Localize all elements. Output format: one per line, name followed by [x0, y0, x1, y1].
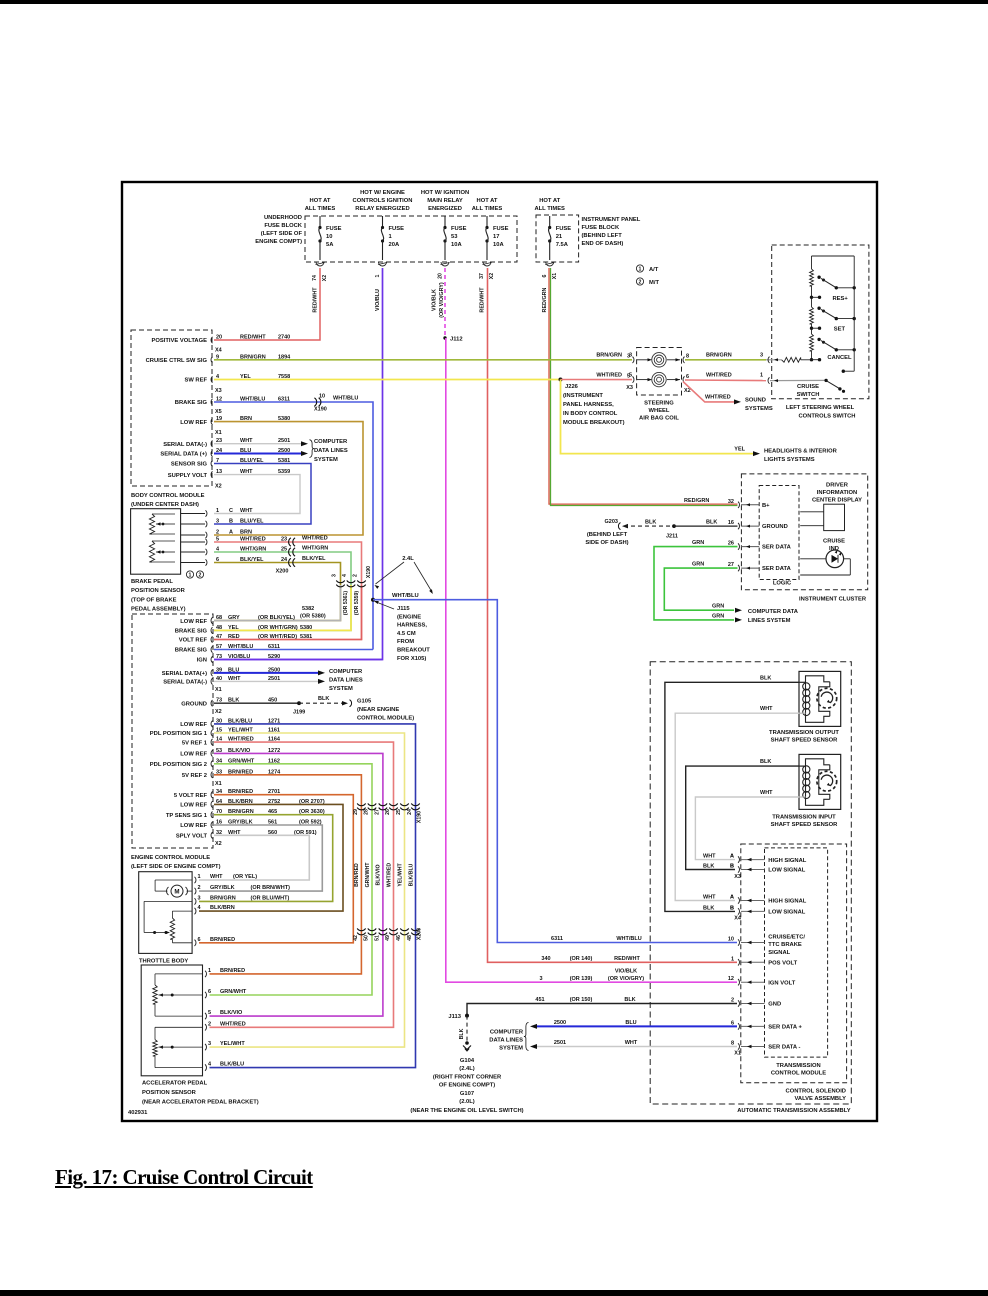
svg-text:1: 1	[389, 234, 393, 240]
svg-text:(OR BLK/YEL): (OR BLK/YEL)	[258, 615, 295, 621]
splice J226	[559, 378, 563, 382]
svg-text:WHT: WHT	[760, 706, 773, 712]
svg-text:2: 2	[731, 998, 734, 1004]
wire VIO/BLU from fuse 1 down to ECM IGN pin 73	[214, 268, 383, 660]
ECM pin 73 GROUND	[181, 698, 277, 708]
wire BLK input sensor	[686, 759, 799, 869]
computer data lines arrows (ECM)	[318, 670, 325, 684]
svg-text:68: 68	[216, 615, 222, 621]
svg-text:OF ENGINE COMPT): OF ENGINE COMPT)	[439, 1083, 495, 1089]
svg-text:ALL TIMES: ALL TIMES	[305, 206, 336, 212]
svg-text:X3: X3	[215, 388, 222, 394]
svg-text:4: 4	[198, 905, 202, 911]
svg-text:IGN: IGN	[197, 658, 207, 664]
fuse 21 pin labels 6 X1	[542, 273, 558, 279]
ECM pin 53 LOW REF	[180, 748, 280, 758]
svg-text:POSITIVE VOLTAGE: POSITIVE VOLTAGE	[151, 338, 207, 344]
svg-text:(INSTRUMENT: (INSTRUMENT	[563, 393, 603, 399]
svg-text:LOW REF: LOW REF	[180, 752, 207, 758]
svg-text:WHT/BLU: WHT/BLU	[616, 936, 641, 942]
svg-text:(OR BLU/WHT): (OR BLU/WHT)	[251, 895, 290, 901]
svg-text:(OR WHT/GRN): (OR WHT/GRN)	[258, 625, 298, 631]
svg-text:SYSTEMS: SYSTEMS	[745, 406, 773, 412]
ECM pin 68 LOW REF	[180, 615, 295, 625]
svg-text:BRAKE SIG: BRAKE SIG	[175, 400, 208, 406]
svg-text:(OR 140): (OR 140)	[570, 956, 593, 962]
svg-text:5381: 5381	[300, 634, 312, 640]
BCM label	[131, 493, 205, 508]
svg-text:FUSE: FUSE	[326, 226, 342, 232]
svg-text:6311: 6311	[551, 936, 563, 942]
wire WHT 5359 BCM supply volt down to row C	[214, 475, 300, 514]
svg-text:2: 2	[353, 574, 359, 577]
ECM pin 32 SPLY VOLT	[176, 830, 277, 840]
ECM pin 30 LOW REF	[180, 718, 280, 728]
svg-text:J113: J113	[448, 1014, 461, 1020]
svg-text:24: 24	[407, 809, 413, 815]
svg-text:ENERGIZED: ENERGIZED	[428, 206, 462, 212]
svg-text:46: 46	[396, 935, 402, 941]
svg-text:2.4L: 2.4L	[402, 556, 414, 562]
svg-text:HEADLIGHTS & INTERIOR: HEADLIGHTS & INTERIOR	[764, 449, 838, 455]
svg-text:DATA LINES: DATA LINES	[489, 1038, 523, 1044]
svg-text:A: A	[730, 854, 734, 860]
svg-text:BLK/BLU: BLK/BLU	[408, 863, 414, 886]
svg-text:FUSE: FUSE	[389, 226, 405, 232]
brake sensor pin 2 BRN	[216, 530, 252, 536]
ECM pin 14 5V REF 1	[182, 737, 281, 747]
svg-text:SIDE OF DASH): SIDE OF DASH)	[585, 540, 628, 546]
svg-text:BLK/BLU: BLK/BLU	[220, 1062, 244, 1068]
svg-text:X2: X2	[322, 275, 328, 281]
instrument panel fuse block label	[582, 217, 641, 247]
svg-text:SHAFT SPEED SENSOR: SHAFT SPEED SENSOR	[771, 822, 838, 828]
svg-text:SPLY VOLT: SPLY VOLT	[176, 834, 208, 840]
svg-text:4.5 CM: 4.5 CM	[397, 631, 416, 637]
wire BRN/RED 2701 ECM to throttle body	[199, 795, 353, 943]
svg-text:WHT: WHT	[210, 874, 223, 880]
sound systems arrow and text	[705, 395, 773, 413]
svg-text:28: 28	[364, 809, 370, 815]
svg-text:HOT AT: HOT AT	[477, 198, 498, 204]
svg-text:27: 27	[728, 562, 734, 568]
svg-text:74: 74	[312, 275, 318, 281]
svg-text:B: B	[730, 905, 734, 911]
svg-text:(OR VIO/GRY): (OR VIO/GRY)	[439, 282, 445, 318]
svg-text:X2: X2	[489, 273, 495, 279]
wire labels 3 (OR 139) VIO/BLK (OR VIO/GRY)	[539, 968, 644, 982]
svg-text:CONTROLS SWITCH: CONTROLS SWITCH	[799, 414, 856, 420]
BCM pin 7 SENSOR SIG	[171, 458, 290, 468]
inline connector X190 pin 10	[314, 394, 358, 413]
svg-text:INFORMATION: INFORMATION	[817, 490, 857, 496]
inline connector column X200 pins 42 50 51 49 46 48	[353, 928, 423, 941]
inline connector column X190 pins 29 28 27 26 25 24	[353, 803, 423, 823]
ECM pin 57 BRAKE SIG	[175, 644, 280, 654]
svg-text:UNDERHOOD: UNDERHOOD	[264, 215, 302, 221]
BCM pin 13 SUPPLY VOLT	[168, 469, 290, 479]
svg-text:3: 3	[539, 976, 542, 982]
accelerator pedal pin 3 YEL/WHT	[205, 1041, 245, 1050]
wire WHT 560 ECM to throttle body	[199, 835, 309, 880]
svg-text:A/T: A/T	[649, 267, 659, 273]
wire BLK/VIO 1272 ECM to accelerator pedal	[210, 753, 383, 1016]
feed label HOT W/ ENGINE CONTROLS IGNITION RELAY ENERGIZED	[353, 190, 413, 212]
computer data lines system text (bottom)	[489, 1030, 524, 1052]
svg-text:CONTROL MODULE: CONTROL MODULE	[771, 1071, 826, 1077]
svg-text:YEL/WHT: YEL/WHT	[397, 862, 403, 886]
svg-text:FROM: FROM	[397, 639, 414, 645]
throttle potentiometer	[144, 901, 192, 942]
svg-text:A: A	[730, 895, 734, 901]
accelerator pedal pin 2 WHT/RED	[205, 1021, 246, 1030]
svg-text:LOW REF: LOW REF	[180, 619, 207, 625]
svg-text:1: 1	[375, 274, 381, 277]
svg-text:IN BODY CONTROL: IN BODY CONTROL	[563, 411, 618, 417]
ECM pin 40 SERIAL DATA(-)	[163, 676, 280, 686]
svg-text:3: 3	[216, 519, 219, 525]
svg-text:J112: J112	[450, 337, 463, 343]
BCM pin 23 SERIAL DATA(-)	[163, 438, 290, 448]
underhood fuse block (dashed box)	[305, 216, 517, 262]
svg-text:LOW SIGNAL: LOW SIGNAL	[768, 868, 805, 874]
svg-text:CRUISE CTRL SW SIG: CRUISE CTRL SW SIG	[146, 358, 208, 364]
svg-text:COMPUTER: COMPUTER	[490, 1030, 524, 1036]
BCM pin 20 POSITIVE VOLTAGE	[151, 335, 290, 345]
throttle body (box)	[139, 872, 192, 954]
wire WHT/BLU 6311 ECM stub (connects to vertical)	[214, 649, 373, 651]
legend A/T	[636, 265, 658, 273]
svg-text:X2: X2	[215, 841, 222, 847]
svg-text:BRN/RED: BRN/RED	[210, 937, 235, 943]
svg-text:LOW REF: LOW REF	[180, 803, 207, 809]
wire BLU 2500 to TCM ser data+	[536, 1025, 737, 1027]
TCM pin 6 SER DATA +	[731, 1020, 803, 1030]
svg-text:37: 37	[479, 273, 485, 279]
svg-text:LOGIC: LOGIC	[773, 581, 792, 587]
svg-text:27: 27	[374, 809, 380, 815]
instrument cluster label	[799, 597, 867, 603]
cluster pin 27 SER DATA	[728, 562, 792, 572]
svg-text:2: 2	[639, 280, 642, 286]
accelerator pedal label	[142, 1081, 259, 1106]
throttle body pin 4 BLK/BRN	[195, 905, 235, 914]
svg-text:LEFT STEERING WHEEL: LEFT STEERING WHEEL	[786, 405, 855, 411]
feed label HOT AT ALL TIMES (fuse 10)	[305, 198, 336, 212]
cluster pin 32 B+	[728, 499, 770, 509]
svg-text:AIR BAG COIL: AIR BAG COIL	[639, 416, 679, 422]
svg-text:2: 2	[198, 885, 201, 891]
fuse 1 pin label 1	[375, 274, 381, 277]
brake sensor pin 4 WHT/GRN	[216, 547, 287, 553]
fuse 53 10A	[441, 216, 467, 266]
svg-text:48: 48	[407, 935, 413, 941]
accelerator pedal pin 6 GRN/WHT	[205, 989, 247, 998]
wire BRN 5380 BCM low ref down to brake pedal sensor row A	[214, 422, 363, 535]
ECM connector labels X1 X2 X1 X2	[215, 687, 222, 847]
accelerator pedal position sensor (box)	[141, 965, 202, 1076]
svg-text:SERIAL DATA(-): SERIAL DATA(-)	[163, 442, 207, 448]
svg-text:1: 1	[639, 267, 642, 273]
computer data lines system text (ECM)	[329, 669, 363, 692]
controls switch label	[786, 405, 856, 420]
wire RED/GRN from fuse 21 down to instrument cluster B+	[549, 268, 738, 506]
bottom black bar	[0, 1290, 988, 1296]
svg-text:6: 6	[686, 374, 689, 380]
svg-text:402931: 402931	[128, 1110, 148, 1116]
svg-text:WHEEL: WHEEL	[649, 408, 670, 414]
computer data lines arrows (BCM)	[301, 440, 314, 458]
svg-text:1: 1	[731, 956, 734, 962]
wire labels WHT/RED row	[596, 373, 763, 379]
svg-text:WHT/RED: WHT/RED	[302, 536, 328, 542]
wire BRN/GRN coil to cruise switch	[685, 359, 766, 361]
wire label RED/GRN	[542, 287, 548, 312]
svg-text:(NEAR THE ENGINE OIL LEVEL SWI: (NEAR THE ENGINE OIL LEVEL SWITCH)	[410, 1108, 523, 1114]
svg-text:POSITION SENSOR: POSITION SENSOR	[131, 588, 186, 594]
throttle motor M	[155, 880, 192, 897]
svg-text:1: 1	[216, 508, 219, 514]
overlay lower wire colors GRY YEL RED after X190	[214, 585, 362, 640]
BCM pin 24 SERIAL DATA (+)	[160, 448, 290, 458]
svg-text:RED/WHT: RED/WHT	[614, 956, 640, 962]
wire labels 6311 WHT/BLU at TCM	[551, 936, 642, 942]
svg-text:BLK: BLK	[459, 1028, 465, 1039]
throttle body pin 6 BRN/RED	[195, 937, 236, 946]
svg-text:(LEFT SIDE OF ENGINE COMPT): (LEFT SIDE OF ENGINE COMPT)	[131, 864, 221, 870]
underhood fuse block label	[255, 215, 303, 245]
svg-text:GRN: GRN	[712, 604, 724, 610]
svg-text:RED/GRN: RED/GRN	[684, 498, 709, 504]
svg-text:GROUND: GROUND	[762, 524, 788, 530]
svg-text:10: 10	[326, 234, 332, 240]
air bag coil spiral 1	[637, 353, 680, 367]
svg-text:ENGINE COMPT): ENGINE COMPT)	[255, 239, 302, 245]
svg-text:BRAKE SIG: BRAKE SIG	[175, 629, 208, 635]
svg-text:B: B	[730, 864, 734, 870]
headlights arrow and text	[734, 447, 837, 464]
svg-text:GRY/BLK: GRY/BLK	[210, 885, 235, 891]
transmission input shaft speed sensor	[799, 754, 841, 809]
svg-text:BRN/RED: BRN/RED	[220, 968, 245, 974]
svg-text:SW REF: SW REF	[184, 378, 207, 384]
brake sensor pin 3 BLU/YEL	[216, 519, 264, 525]
fuse 17 10A	[483, 216, 509, 266]
fuse 10 5A	[316, 216, 342, 266]
ECM pin 15 PDL POSITION SIG 1	[150, 728, 280, 738]
TCM pin 1 POS VOLT	[731, 956, 798, 966]
svg-text:X1: X1	[215, 430, 222, 436]
svg-text:LOW REF: LOW REF	[180, 722, 207, 728]
svg-text:INSTRUMENT PANEL: INSTRUMENT PANEL	[582, 217, 641, 223]
svg-text:BODY CONTROL MODULE: BODY CONTROL MODULE	[131, 493, 205, 499]
svg-text:B: B	[229, 519, 233, 525]
svg-text:SWITCH: SWITCH	[797, 392, 820, 398]
wire WHT/GRN 25 to X190 vertical	[214, 552, 351, 630]
wire VIO/BLK solid from J112 down to TCM IGN VOLT	[446, 338, 737, 982]
brake sensor pin 1 WHT	[216, 508, 253, 514]
feed label HOT W/ IGNITION MAIN RELAY ENERGIZED	[421, 190, 469, 212]
J115 note with leader	[373, 599, 430, 661]
svg-text:(NEAR ENGINE: (NEAR ENGINE	[357, 707, 399, 713]
svg-text:BRN/GRN: BRN/GRN	[596, 353, 622, 359]
svg-text:HOT W/ ENGINE: HOT W/ ENGINE	[360, 190, 405, 196]
svg-text:X200: X200	[276, 569, 289, 575]
svg-text:(OR 5359): (OR 5359)	[354, 591, 360, 615]
ground G105	[342, 699, 414, 722]
TCM pin B LOW SIGNAL	[730, 864, 806, 874]
svg-text:340: 340	[541, 956, 550, 962]
svg-text:END OF DASH): END OF DASH)	[582, 241, 624, 247]
automatic transmission assembly label	[737, 1108, 851, 1114]
brake pedal sensor potentiometer 2	[149, 541, 175, 562]
svg-text:SYSTEM: SYSTEM	[314, 457, 338, 463]
svg-text:(OR 139): (OR 139)	[570, 976, 593, 982]
wire BRN/GRN 1894 BCM to air bag coil	[214, 359, 632, 361]
svg-text:IGN VOLT: IGN VOLT	[768, 980, 795, 986]
ECM pin 48 BRAKE SIG	[175, 625, 312, 635]
svg-text:(RIGHT FRONT CORNER: (RIGHT FRONT CORNER	[433, 1075, 502, 1081]
wire YEL 7558 BCM to J226	[214, 379, 561, 381]
wire WHT 2501 ECM serial data-	[214, 680, 318, 682]
svg-text:RELAY ENERGIZED: RELAY ENERGIZED	[355, 206, 409, 212]
svg-text:50: 50	[364, 935, 370, 941]
svg-text:GRN: GRN	[712, 613, 724, 619]
svg-text:G203: G203	[605, 519, 618, 525]
svg-text:SER DATA -: SER DATA -	[768, 1045, 800, 1051]
svg-text:BLK: BLK	[760, 759, 771, 765]
svg-text:M/T: M/T	[649, 280, 659, 286]
ECM pin 34 PDL POSITION SIG 2	[150, 758, 280, 768]
svg-text:BLK: BLK	[703, 905, 714, 911]
svg-text:INSTRUMENT CLUSTER: INSTRUMENT CLUSTER	[799, 597, 867, 603]
transmission control module (dashed box)	[765, 848, 828, 1057]
svg-text:21: 21	[556, 234, 563, 240]
svg-text:BRN/GRN: BRN/GRN	[210, 895, 236, 901]
inline connector X200 (brake sensor wires)	[276, 538, 296, 575]
svg-text:FOR X105): FOR X105)	[397, 656, 426, 662]
splice dot on WHT/BLU at y600 and branch to TCM	[371, 598, 737, 943]
svg-text:(2.4L): (2.4L)	[459, 1066, 475, 1072]
wire GRN ser data 26	[654, 540, 738, 620]
svg-text:BLK: BLK	[318, 696, 329, 702]
svg-text:COMPUTER: COMPUTER	[329, 669, 363, 675]
wire WHT output sensor	[675, 706, 799, 900]
ladder bottom to pin 3 with resistor	[766, 357, 812, 362]
svg-text:J199: J199	[293, 710, 305, 716]
wire WHT/RED branch to sound systems	[683, 382, 734, 402]
engine control module ECM (dashed box)	[132, 614, 213, 848]
svg-text:51: 51	[374, 935, 380, 941]
wire WHT/RED J226 to coil to cruise switch	[561, 380, 767, 381]
svg-text:X190: X190	[366, 566, 372, 578]
ECM pin 73 IGN	[197, 654, 281, 664]
logic label	[773, 581, 792, 587]
dashed BLK to G105	[299, 696, 344, 703]
svg-text:(OR BRN/WHT): (OR BRN/WHT)	[251, 885, 291, 891]
2.4L note with arrows	[374, 556, 435, 595]
svg-text:2: 2	[199, 573, 202, 579]
wire GRN/WHT 1162 ECM to accelerator pedal	[210, 764, 373, 995]
svg-text:BLK: BLK	[645, 520, 656, 526]
inline connector X190 (vertical wires, pins 3 4 2)	[332, 566, 373, 587]
wire VIO/BLK dashed from fuse 53 to J112	[444, 268, 446, 338]
BCM pin 9 CRUISE CTRL SW SIG	[146, 354, 292, 364]
svg-text:WHT: WHT	[703, 854, 716, 860]
svg-text:26: 26	[385, 809, 391, 815]
svg-text:WHT/RED: WHT/RED	[220, 1021, 246, 1027]
resistor ladder with top rail	[810, 256, 855, 360]
wire BLU 2500 ECM serial data+	[214, 672, 318, 674]
svg-text:B+: B+	[762, 503, 770, 509]
svg-text:GRN: GRN	[692, 562, 704, 568]
ECM pin 16 LOW REF	[180, 820, 277, 830]
svg-text:6: 6	[198, 937, 201, 943]
svg-text:(ENGINE: (ENGINE	[397, 614, 421, 620]
wire label RED/WHT (fuse 10)	[313, 287, 319, 313]
accelerator pedal pin 5 BLK/VIO	[205, 1010, 243, 1019]
driver information center display	[800, 483, 862, 531]
svg-text:DATA LINES: DATA LINES	[329, 678, 363, 684]
svg-text:BRN/RED: BRN/RED	[354, 863, 360, 887]
svg-text:POSITION SENSOR: POSITION SENSOR	[142, 1090, 197, 1096]
rotated labels (OR 5361) (OR 5359)	[343, 591, 360, 615]
instrument panel fuse block (dashed box)	[536, 215, 579, 262]
transmission output shaft speed sensor	[799, 671, 841, 726]
svg-text:VIO/BLK: VIO/BLK	[432, 289, 438, 311]
svg-text:5 VOLT REF: 5 VOLT REF	[174, 793, 208, 799]
svg-text:SOUND: SOUND	[745, 398, 766, 404]
svg-text:PDL POSITION SIG 2: PDL POSITION SIG 2	[150, 762, 207, 768]
svg-text:G107: G107	[460, 1091, 474, 1097]
svg-text:BLK/BRN: BLK/BRN	[210, 905, 235, 911]
svg-text:X5: X5	[215, 409, 222, 415]
svg-text:TRANSMISSION INPUT: TRANSMISSION INPUT	[772, 815, 836, 821]
diagram border frame	[122, 182, 877, 1121]
svg-text:WHT/BLU: WHT/BLU	[333, 396, 358, 402]
TCM pin B LOW SIGNAL	[730, 905, 806, 915]
svg-text:32: 32	[728, 499, 734, 505]
svg-text:SET: SET	[834, 327, 846, 333]
brake sensor pin 6 BLK/YEL	[216, 557, 288, 563]
svg-text:20: 20	[216, 335, 222, 341]
svg-text:(NEAR ACCELERATOR PEDAL BRACKE: (NEAR ACCELERATOR PEDAL BRACKET)	[142, 1100, 259, 1106]
wire BRN/GRN 465 ECM to throttle body	[199, 815, 333, 902]
svg-text:(TOP OF BRAKE: (TOP OF BRAKE	[131, 598, 177, 604]
svg-text:LIGHTS SYSTEMS: LIGHTS SYSTEMS	[764, 457, 815, 463]
diagram id 402931	[128, 1110, 148, 1116]
svg-text:BRAKE SIG: BRAKE SIG	[175, 648, 208, 654]
wire BLK 450 ground to J199	[214, 701, 305, 715]
svg-text:M: M	[174, 888, 179, 895]
wire labels 2501 WHT	[554, 1040, 638, 1046]
BCM pin 12 BRAKE SIG	[175, 397, 290, 407]
svg-text:COMPUTER DATA: COMPUTER DATA	[748, 609, 799, 615]
svg-text:SYSTEM: SYSTEM	[499, 1046, 523, 1052]
svg-text:1: 1	[760, 373, 763, 379]
ladder tap dots	[810, 296, 821, 362]
wire labels 451 (OR 150) BLK	[535, 997, 635, 1003]
svg-text:X4: X4	[215, 348, 223, 354]
body control module BCM (dashed box)	[131, 330, 212, 486]
svg-text:CONTROLS IGNITION: CONTROLS IGNITION	[353, 198, 413, 204]
wire GRY/BLK 561 ECM to throttle body	[199, 825, 322, 891]
svg-text:WHT: WHT	[625, 1040, 638, 1046]
splice J113	[448, 1014, 469, 1020]
svg-text:1: 1	[189, 573, 192, 579]
svg-text:2: 2	[208, 1021, 211, 1027]
computer data lines system text (BCM)	[314, 439, 348, 463]
